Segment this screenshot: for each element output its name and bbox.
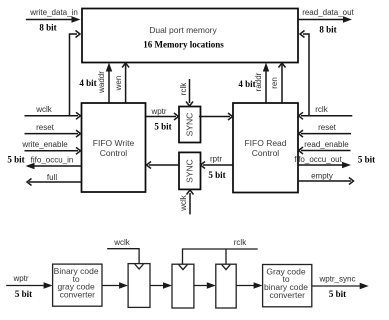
svg-text:5 bit: 5 bit: [154, 122, 171, 132]
fifo_occu_in output wire (5 bit): [7, 155, 81, 170]
wclk stub into bottom SYNC: [179, 190, 194, 214]
svg-text:5 bit: 5 bit: [7, 155, 24, 165]
svg-text:rptr: rptr: [210, 155, 222, 164]
svg-text:SYNC: SYNC: [185, 159, 195, 183]
svg-text:full: full: [47, 173, 57, 182]
reset input wire (right): [299, 123, 352, 137]
rclk wire (bottom): [183, 238, 258, 264]
svg-text:wptr: wptr: [150, 107, 166, 116]
ren wire: [270, 63, 286, 103]
rclk feedback wire to memory (right): [300, 31, 309, 116]
wclk feedback wire to memory (left): [70, 31, 81, 116]
flip-flop FF3: [216, 264, 236, 308]
gray to binary converter box: [263, 265, 312, 307]
full output wire: [27, 173, 82, 186]
svg-text:Binary code to gray code: Binary code to gray code converter: [54, 266, 101, 299]
svg-text:rclk: rclk: [179, 82, 188, 95]
svg-text:Gray code to binary code: Gray code to binary code converter: [264, 266, 310, 299]
SYNC box (top): [179, 107, 201, 143]
svg-text:fifo_occu_in: fifo_occu_in: [31, 156, 74, 165]
fifo_occu_out output wire (5 bit): [294, 155, 375, 169]
binary to gray converter box: [53, 264, 102, 306]
rptr wire SYNC->write: [147, 162, 180, 169]
svg-text:8 bit: 8 bit: [39, 23, 56, 33]
svg-text:SYNC: SYNC: [185, 113, 195, 137]
wire FF2->FF3: [194, 282, 216, 288]
empty output wire: [298, 172, 354, 185]
dual port memory box: [82, 9, 298, 63]
svg-text:rclk: rclk: [234, 238, 247, 247]
svg-text:reset: reset: [36, 123, 55, 132]
svg-text:wptr_sync: wptr_sync: [318, 275, 355, 284]
read_enable input wire: [299, 140, 351, 154]
svg-text:FIFO Write: FIFO Write: [93, 138, 135, 148]
svg-text:wen: wen: [114, 76, 123, 92]
svg-text:wclk: wclk: [35, 105, 53, 114]
svg-text:16 Memory locations: 16 Memory locations: [143, 40, 224, 50]
svg-text:waddr: waddr: [97, 71, 106, 94]
FIFO Write Control box: [82, 103, 146, 192]
wire FF3->gray converter: [236, 282, 262, 288]
svg-text:empty: empty: [311, 172, 333, 181]
svg-text:read_enable: read_enable: [304, 140, 349, 149]
flip-flop FF1: [128, 264, 150, 308]
wclk wire (bottom): [107, 238, 139, 264]
SYNC box (bottom): [179, 152, 201, 189]
svg-text:fifo_occu_out: fifo_occu_out: [294, 155, 342, 164]
svg-text:write_data_in: write_data_in: [29, 8, 78, 17]
svg-text:Control: Control: [100, 148, 128, 158]
svg-text:wptr: wptr: [12, 274, 28, 283]
write_data_in input wire: [26, 8, 81, 33]
raddr wire (4 bit): [238, 63, 269, 104]
svg-text:rclk: rclk: [315, 105, 328, 114]
svg-text:read_data_out: read_data_out: [302, 8, 354, 17]
svg-text:5 bit: 5 bit: [208, 170, 225, 180]
wclk input wire: [25, 105, 81, 119]
svg-text:ren: ren: [270, 77, 279, 89]
wptr wire write->SYNC (5 bit): [146, 107, 179, 132]
rptr wire read->SYNC (5 bit): [201, 155, 234, 181]
wptr wire SYNC->read: [199, 113, 233, 120]
flip-flop FF2: [172, 264, 194, 308]
rclk input wire: [299, 105, 353, 119]
rclk stub into top SYNC: [179, 79, 193, 106]
reset input wire (left): [25, 123, 81, 137]
FIFO Read Control box: [233, 103, 298, 193]
wptr input wire (bottom, 5 bit): [6, 274, 52, 299]
svg-text:5 bit: 5 bit: [358, 155, 375, 165]
wire converter->FF1: [102, 282, 128, 288]
wen wire: [114, 63, 129, 103]
waddr wire (4 bit): [79, 63, 112, 104]
wire FF1->FF2: [150, 282, 172, 288]
svg-text:4 bit: 4 bit: [79, 78, 96, 88]
svg-text:wclk: wclk: [179, 194, 188, 212]
wptr_sync output wire (5 bit): [312, 275, 369, 300]
svg-text:5 bit: 5 bit: [329, 289, 346, 299]
write_enable input wire: [21, 140, 80, 154]
svg-text:FIFO Read: FIFO Read: [244, 138, 286, 148]
svg-text:write_enable: write_enable: [21, 140, 68, 149]
svg-text:5 bit: 5 bit: [15, 289, 32, 299]
svg-text:4 bit: 4 bit: [238, 79, 255, 89]
svg-text:8 bit: 8 bit: [319, 25, 336, 35]
svg-text:Control: Control: [252, 148, 280, 158]
read_data_out output wire: [298, 8, 355, 35]
svg-text:wclk: wclk: [113, 238, 131, 247]
svg-text:Dual port memory: Dual port memory: [149, 25, 217, 35]
svg-text:reset: reset: [318, 123, 337, 132]
